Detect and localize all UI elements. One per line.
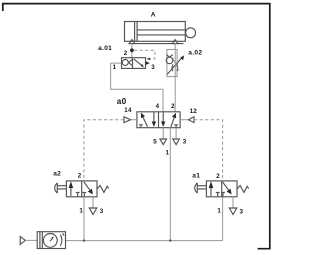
one-way flow control valve a.02 [167, 50, 177, 77]
svg-text:3: 3 [240, 208, 244, 215]
a2 push button [56, 183, 58, 193]
a2 left cell 1->2 arrow [70, 187, 72, 196]
supply wire a0 port 1 to bus [169, 128, 171, 241]
right cell: 4->5 arrow [162, 112, 164, 124]
left cell: blocked port 5 [139, 125, 143, 128]
a1 left cell blocked 3 [216, 193, 220, 197]
a2 exhaust port 3 [92, 197, 94, 208]
supply bus wire [66, 240, 223, 242]
air service unit [37, 232, 65, 249]
svg-text:2: 2 [78, 172, 82, 179]
3/2-way valve a1 [195, 181, 249, 197]
a1 push button [196, 183, 198, 193]
svg-text:a.02: a.02 [188, 50, 202, 57]
left cell: 2->3 arrow [153, 112, 155, 124]
a1 left cell 1->2 arrow [210, 187, 212, 196]
pilot wire 14 dashed [84, 120, 124, 181]
a1 exhaust port 3 [232, 197, 234, 208]
wire a2 port 1 to bus [83, 197, 85, 241]
svg-text:1: 1 [79, 207, 83, 214]
svg-text:a2: a2 [53, 171, 61, 178]
svg-text:a.01: a.01 [98, 45, 112, 52]
svg-text:3: 3 [151, 64, 155, 71]
a2 right cell blocked 1 [82, 193, 86, 197]
svg-text:1: 1 [113, 64, 117, 71]
wire cylinder right port through a.02 to a0 port 2 [174, 44, 176, 112]
right cell: blocked port 3 [174, 125, 178, 128]
svg-text:1: 1 [166, 150, 170, 157]
wire a1 port 1 to bus [222, 197, 224, 241]
svg-text:3: 3 [100, 208, 104, 215]
exhaust 5 of a0 [162, 128, 164, 139]
a2 right cell 2->3 arrow [84, 182, 91, 192]
node junction on a.01 port 2 line [130, 48, 134, 52]
node bus/a2 junction [83, 239, 85, 241]
svg-text:14: 14 [124, 107, 132, 114]
svg-text:4: 4 [156, 103, 160, 110]
svg-text:2: 2 [216, 173, 220, 180]
a2 left cell blocked 3 [76, 193, 80, 197]
position marker a.02 (right triangle under cylinder) [172, 40, 178, 44]
compressed air source [20, 236, 25, 244]
svg-text:12: 12 [190, 108, 198, 115]
node bus/a0 junction [169, 239, 171, 241]
svg-text:2: 2 [124, 50, 128, 57]
a1 spring [237, 186, 249, 193]
wire cylinder left port to valve a.01 port 2 [131, 44, 133, 58]
right cell: 1->2 arrow [171, 116, 175, 127]
exhaust 3 of a0 [175, 128, 177, 139]
3/2-way valve a2 [55, 181, 109, 197]
svg-text:a0: a0 [117, 97, 127, 106]
svg-text:2: 2 [171, 103, 175, 110]
svg-text:a1: a1 [192, 172, 200, 179]
5/2-way valve a0 [137, 112, 180, 128]
svg-text:5: 5 [153, 138, 157, 145]
pilot 12 head [188, 117, 194, 123]
left cell: 1->4 arrow [142, 115, 147, 126]
pilot dashed loop of a.01 [134, 50, 155, 59]
svg-text:3: 3 [183, 138, 187, 145]
a1 right cell 2->3 arrow [223, 182, 230, 192]
a2 spring [97, 186, 109, 193]
cylinder distance ruler [129, 43, 184, 45]
a1 right cell blocked 1 [221, 193, 225, 197]
wire a.01 port1 to a0 port 4 [111, 63, 163, 112]
pilot 14 head [124, 117, 131, 123]
pilot wire 12 dashed [194, 120, 223, 181]
position marker a.01 (left triangle under cylinder) [129, 40, 135, 44]
cylinder A [125, 22, 196, 42]
quick exhaust valve a.01 [122, 58, 146, 69]
svg-text:1: 1 [217, 208, 221, 215]
svg-text:A: A [151, 12, 156, 19]
